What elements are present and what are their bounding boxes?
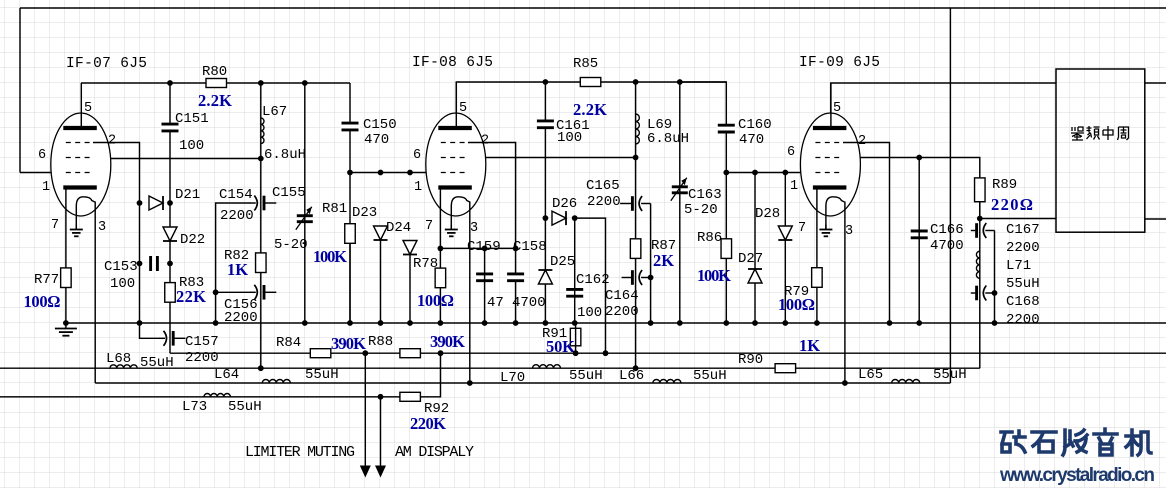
resistor R84: [310, 349, 331, 358]
node R79/bus: [814, 320, 820, 326]
wire B+ drop to L65: [949, 8, 951, 383]
svg-text:R89: R89: [992, 177, 1017, 193]
svg-text:47: 47: [487, 295, 504, 311]
node cathode/pin2 tie: [438, 246, 444, 252]
svg-text:L68: L68: [106, 351, 131, 367]
node grid wire/D27: [752, 170, 758, 176]
node rail/L69: [633, 79, 639, 85]
svg-text:3: 3: [470, 221, 478, 236]
wire C161-D25 branch: [544, 82, 546, 323]
node V3 pin3/L66 bus: [842, 380, 848, 386]
wire V3 grid row2: [861, 158, 980, 219]
tube V2 IF-08 envelope: [426, 113, 486, 216]
diode D25: [538, 270, 552, 284]
svg-text:D22: D22: [180, 232, 205, 248]
ground (bus left): [65, 323, 67, 329]
tube V1 IF-07 plate: [63, 126, 97, 130]
node V1 rail / L67: [258, 80, 264, 86]
svg-text:L67: L67: [262, 104, 287, 120]
wire C167/C168 tie: [994, 231, 996, 324]
wire C150 branch: [349, 83, 351, 323]
node C150/grid wire: [347, 170, 353, 176]
svg-text:4700: 4700: [930, 238, 964, 254]
tube V2 IF-08 cathode: [438, 185, 472, 189]
svg-text:C159: C159: [467, 239, 501, 255]
svg-text:100: 100: [557, 130, 582, 146]
svg-text:IF-09 6J5: IF-09 6J5: [799, 55, 880, 71]
wire R90 corner: [979, 367, 981, 369]
wire V3 grid feed: [726, 172, 816, 174]
svg-text:6: 6: [787, 145, 795, 160]
tube V3 IF-09 grids: [815, 142, 843, 144]
wire V3 cathode to bus: [816, 189, 818, 323]
svg-text:C151: C151: [175, 111, 209, 127]
watermark 矿石收音机: [1001, 429, 1151, 455]
svg-text:L73: L73: [182, 399, 207, 415]
svg-text:2: 2: [108, 134, 116, 149]
wire V1 plate rail: [81, 82, 350, 84]
svg-text:4700: 4700: [512, 295, 546, 311]
svg-text:1K: 1K: [227, 260, 248, 279]
resistor R79: [812, 268, 823, 288]
capacitor C157: [159, 337, 165, 339]
inductor L70: [533, 365, 561, 369]
tube V3 IF-09 heater: [826, 197, 845, 229]
svg-text:470: 470: [739, 132, 764, 148]
svg-text:22K: 22K: [176, 287, 206, 306]
svg-text:470: 470: [364, 132, 389, 148]
wire V2 pin2 bend: [468, 143, 516, 324]
capacitor C168: [971, 292, 976, 294]
svg-text:55uH: 55uH: [305, 367, 339, 383]
node C160/V3 grid wire: [723, 170, 729, 176]
tube V2 IF-08 pin5 lead: [455, 82, 457, 128]
svg-text:5: 5: [833, 101, 841, 116]
wire D28 legs: [784, 173, 786, 227]
wire tube V1 grid feed: [20, 172, 66, 174]
resistor R90: [775, 364, 796, 373]
node C159 tap: [482, 246, 488, 252]
node V3 pin2/bus: [887, 320, 893, 326]
wire V2 grid feed: [350, 172, 441, 174]
wire ground bus: [66, 322, 1166, 324]
node grid wire/D24: [407, 170, 413, 176]
wire D23 to bus: [380, 240, 382, 323]
svg-text:390K: 390K: [430, 332, 465, 351]
node C151/C153: [167, 261, 173, 267]
svg-text:55uH: 55uH: [933, 367, 967, 383]
svg-text:100K: 100K: [313, 247, 347, 266]
inductor L71: [976, 251, 979, 278]
svg-text:C165: C165: [586, 178, 620, 194]
resistor R83: [165, 283, 176, 303]
inductor L64: [262, 380, 290, 384]
capacitor C166: [910, 231, 929, 238]
tube V1 IF-07 grids: [66, 142, 94, 144]
capacitor C159: [475, 274, 494, 281]
node line B/muting arrow: [362, 350, 368, 356]
wire L64 bus: [95, 382, 950, 384]
svg-text:D26: D26: [552, 196, 577, 212]
wire R81 to bus: [349, 243, 351, 323]
wire V3 plate rail: [831, 83, 1056, 128]
svg-text:2.2K: 2.2K: [198, 91, 232, 110]
svg-text:100: 100: [110, 276, 135, 292]
wire cathode tie: [440, 247, 515, 249]
resistor R87: [630, 239, 641, 259]
svg-text:D25: D25: [550, 254, 575, 270]
wire line B: [170, 352, 1166, 354]
node L67 branch/L68 bus: [258, 365, 264, 371]
svg-text:IF-07 6J5: IF-07 6J5: [66, 56, 147, 72]
resistor R78: [435, 268, 446, 288]
svg-text:L64: L64: [214, 367, 239, 383]
wire L68 bus: [0, 367, 980, 369]
inductor L69: [636, 114, 640, 144]
node C166/bus: [916, 320, 922, 326]
tube V1 IF-07 pin5 lead: [80, 83, 82, 128]
svg-text:L65: L65: [858, 367, 883, 383]
node line B/R92: [438, 350, 444, 356]
node pin2/bus: [137, 320, 143, 326]
svg-text:7: 7: [51, 218, 59, 233]
svg-text:IF-08 6J5: IF-08 6J5: [412, 55, 493, 71]
wire C165 out leg: [650, 204, 652, 324]
diode D23: [374, 226, 388, 240]
wire C166 leg: [918, 158, 920, 324]
resistor R81: [345, 224, 356, 244]
node L69 branch/L68 bus: [633, 365, 639, 371]
svg-text:5-20: 5-20: [274, 237, 308, 253]
tube V2 IF-08 grids: [441, 142, 469, 144]
resistor R77: [61, 268, 72, 288]
node C163/bus: [677, 320, 683, 326]
capacitor C150: [341, 123, 360, 130]
node D24/bus: [407, 320, 413, 326]
svg-text:www.crystalradio.cn: www.crystalradio.cn: [999, 465, 1155, 486]
svg-text:5-20: 5-20: [684, 202, 718, 218]
ground (tube V1 IF-07 heater): [75, 225, 77, 230]
svg-text:100Ω: 100Ω: [417, 291, 454, 310]
svg-text:6: 6: [38, 148, 46, 163]
svg-text:6.8uH: 6.8uH: [647, 131, 689, 147]
svg-text:2200: 2200: [220, 208, 254, 224]
label 鉴频中周 (discriminator IFT): [1071, 126, 1129, 140]
resistor R88: [400, 349, 421, 358]
svg-text:5: 5: [459, 101, 467, 116]
resistor R92: [400, 392, 421, 401]
svg-text:D27: D27: [738, 251, 763, 267]
node C155/bus: [302, 320, 308, 326]
wire C157 stub corner: [169, 352, 171, 354]
capacitor C151: [161, 124, 180, 131]
svg-text:100: 100: [577, 305, 602, 321]
svg-text:2200: 2200: [1006, 240, 1040, 256]
wire C157 left leg: [140, 323, 161, 338]
inductor L65: [892, 380, 920, 384]
svg-text:D21: D21: [175, 187, 200, 203]
svg-text:D23: D23: [352, 205, 377, 221]
node L67/grid wire: [258, 156, 264, 162]
node D28/bus: [782, 320, 788, 326]
node R86/bus: [723, 320, 729, 326]
wire top border B+ rail: [20, 7, 1166, 9]
svg-text:55uH: 55uH: [140, 355, 174, 371]
wire V2 grid row2: [486, 157, 636, 159]
svg-text:D24: D24: [386, 220, 411, 236]
node grid wire/D28: [782, 170, 788, 176]
svg-text:R85: R85: [573, 56, 598, 72]
svg-text:6.8uH: 6.8uH: [264, 147, 306, 163]
node D26 anode: [543, 215, 549, 221]
node pin2/tie: [513, 246, 519, 252]
svg-text:LIMITER MUTING: LIMITER MUTING: [245, 444, 355, 461]
svg-text:C158: C158: [513, 239, 547, 255]
wire D27 legs: [754, 173, 756, 270]
resistor R89: [975, 178, 986, 202]
svg-text:C154: C154: [219, 187, 253, 203]
svg-text:55uH: 55uH: [569, 368, 603, 384]
svg-text:C168: C168: [1006, 294, 1040, 310]
wire AM display drop: [380, 397, 382, 466]
node D25/bus: [543, 320, 549, 326]
resistor R85: [580, 78, 601, 87]
node rail/C163: [677, 79, 683, 85]
svg-text:390K: 390K: [331, 334, 366, 353]
capacitor C158: [506, 274, 525, 281]
tube V3 IF-09 cathode: [813, 185, 847, 189]
wire D24 to bus: [409, 255, 411, 324]
node rail/C161: [543, 79, 549, 85]
tube V3 IF-09 plate: [813, 126, 847, 130]
svg-text:55uH: 55uH: [693, 368, 727, 384]
svg-text:1K: 1K: [799, 336, 820, 355]
svg-text:C157: C157: [185, 334, 219, 350]
capacitor C162: [565, 289, 584, 296]
svg-text:2200: 2200: [605, 304, 639, 320]
node R77 ground: [63, 320, 69, 326]
inductor L73: [204, 394, 230, 397]
node row2/C166: [916, 155, 922, 161]
wire V3 pin3 to L66 bus: [844, 202, 846, 384]
wire D26 out: [575, 218, 606, 353]
svg-text:R90: R90: [738, 352, 763, 368]
svg-text:2.2K: 2.2K: [573, 100, 607, 119]
wire C151 branch: [169, 83, 171, 353]
diode D27: [748, 269, 762, 283]
svg-text:R86: R86: [697, 230, 722, 246]
ground (tube V3 IF-09 heater): [825, 225, 827, 230]
svg-text:R81: R81: [322, 201, 347, 217]
resistor R86: [721, 239, 732, 259]
tube V1 IF-07 envelope: [51, 113, 111, 216]
svg-text:7: 7: [425, 219, 433, 234]
node V2 pin3/L64 bus: [467, 380, 473, 386]
svg-text:C153: C153: [104, 259, 138, 275]
wire C159 leg: [484, 248, 486, 323]
ground (tube V2 IF-08 heater): [450, 225, 452, 230]
wire R91 to line B: [575, 323, 577, 353]
svg-text:C167: C167: [1006, 222, 1040, 238]
svg-text:L70: L70: [500, 370, 525, 386]
svg-text:R78: R78: [413, 256, 438, 272]
tube V3 IF-09 envelope: [800, 113, 860, 216]
svg-text:6: 6: [413, 148, 421, 163]
node C158/bus: [513, 320, 519, 326]
arrow LIMITER MUTING: [360, 466, 371, 478]
svg-text:7: 7: [798, 221, 806, 236]
svg-text:2: 2: [858, 134, 866, 149]
svg-text:5: 5: [84, 101, 92, 116]
trimmer C155: [297, 214, 313, 217]
node pin2/C153: [137, 261, 143, 267]
tube V1 IF-07 cathode: [63, 185, 97, 189]
inductor L67: [261, 118, 264, 144]
svg-text:3: 3: [845, 224, 853, 239]
node tie/bus: [992, 320, 998, 326]
capacitor C154: [250, 202, 256, 204]
node V1 rail / C151: [167, 80, 173, 86]
wire L73 line: [0, 353, 441, 397]
wire L67 branch: [260, 83, 262, 368]
node D26 cathode: [572, 215, 578, 221]
svg-text:1: 1: [790, 179, 798, 194]
svg-text:2200: 2200: [587, 194, 621, 210]
svg-text:R77: R77: [34, 272, 59, 288]
capacitor C161: [536, 121, 555, 128]
wire V1 pin3 to L64 bus: [94, 202, 96, 384]
svg-text:C166: C166: [930, 222, 964, 238]
svg-text:55uH: 55uH: [1006, 276, 1040, 292]
node C156 tap: [213, 289, 219, 295]
wire V2 plate rail: [456, 82, 726, 128]
svg-text:C164: C164: [605, 288, 639, 304]
trimmer C163: [672, 185, 688, 188]
node pin2/D21: [137, 200, 143, 206]
node C162/bus: [572, 320, 578, 326]
wire V3 pin2 bend: [843, 143, 890, 324]
svg-text:3: 3: [98, 220, 106, 235]
inductor L68: [110, 365, 137, 368]
wire feed to box: [980, 218, 1056, 220]
diode D26: [552, 211, 566, 225]
capacitor C164: [622, 277, 632, 279]
svg-text:2200: 2200: [1006, 312, 1040, 328]
wire C162 leg: [574, 218, 576, 323]
svg-text:100Ω: 100Ω: [778, 295, 815, 314]
svg-text:C160: C160: [738, 117, 772, 133]
svg-text:220Ω: 220Ω: [991, 195, 1033, 214]
tube V2 IF-08 plate: [438, 126, 472, 130]
diode D28: [778, 226, 792, 240]
node C159/bus: [482, 320, 488, 326]
wire C156 left lead: [216, 291, 251, 293]
node C150/bus: [347, 320, 353, 326]
tube V3 IF-09 pin5 lead: [830, 83, 832, 128]
svg-text:C163: C163: [688, 187, 722, 203]
capacitor C165: [620, 203, 631, 205]
wire muting drop: [364, 353, 366, 466]
svg-text:1: 1: [42, 180, 50, 195]
wire V1 pin2 bend: [93, 143, 140, 324]
node C168 tie: [992, 290, 998, 296]
node V1 rail / C155: [302, 80, 308, 86]
svg-text:C162: C162: [576, 272, 610, 288]
inductor L66: [653, 380, 681, 384]
node C151/D21: [167, 200, 173, 206]
diode D21: [149, 196, 163, 210]
diode D22: [163, 227, 177, 241]
wire V1 grid row2: [111, 158, 261, 160]
svg-text:AM DISPALY: AM DISPALY: [395, 444, 474, 461]
node grid wire/D23: [378, 170, 384, 176]
wire V1 cathode to R77: [65, 190, 67, 324]
wire C163 branch: [679, 82, 681, 323]
wire box out bottom: [1145, 218, 1166, 220]
svg-text:100: 100: [179, 138, 204, 154]
resistor R82: [256, 253, 266, 273]
svg-text:2K: 2K: [653, 251, 674, 270]
node R91/line B: [573, 350, 579, 356]
wire left border: [19, 8, 21, 173]
node C164/out leg: [648, 275, 654, 281]
node D27/bus: [752, 320, 758, 326]
wire C155 branch: [304, 83, 306, 323]
capacitor C167: [971, 230, 976, 232]
wire R89 chain: [979, 202, 981, 369]
svg-text:L71: L71: [1006, 258, 1031, 274]
wire V2 cathode to bus: [439, 189, 441, 323]
node C154 leg/bus: [213, 320, 219, 326]
resistor R91: [570, 328, 581, 346]
svg-text:R84: R84: [276, 335, 301, 351]
wire V2 pin3 to L64 bus: [469, 202, 471, 384]
wire C154 left leg: [216, 203, 251, 323]
node R78/bus: [438, 320, 444, 326]
diode D24: [403, 241, 417, 255]
svg-text:100Ω: 100Ω: [24, 292, 61, 311]
resistor R80: [206, 79, 227, 88]
node D23/bus: [378, 320, 384, 326]
block discriminator transformer: [1056, 69, 1145, 232]
svg-text:55uH: 55uH: [228, 399, 262, 415]
capacitor C160: [717, 125, 736, 132]
node D26 out/line B: [603, 350, 609, 356]
svg-text:R80: R80: [202, 64, 227, 80]
wire L69 branch: [635, 82, 637, 368]
node L73/AM arrow: [378, 394, 384, 400]
node out leg/bus: [648, 320, 654, 326]
svg-text:220K: 220K: [410, 414, 446, 433]
wire C160 branch: [680, 82, 727, 323]
node L69/V2 row2: [633, 155, 639, 161]
svg-text:2200: 2200: [185, 350, 219, 366]
wire box out top: [1145, 82, 1166, 84]
capacitor C156: [250, 291, 256, 293]
capacitor C153: [151, 255, 158, 272]
node R89/box feed: [977, 216, 983, 222]
svg-text:1: 1: [414, 180, 422, 195]
svg-text:C150: C150: [363, 117, 397, 133]
svg-text:D28: D28: [755, 206, 780, 222]
arrow AM DISPALY: [375, 466, 386, 478]
svg-text:C155: C155: [272, 185, 306, 201]
svg-text:2: 2: [481, 134, 489, 149]
svg-text:L66: L66: [619, 368, 644, 384]
tube V1 IF-07 heater: [76, 197, 95, 229]
tube V2 IF-08 heater: [451, 197, 470, 229]
svg-text:100K: 100K: [697, 266, 731, 285]
